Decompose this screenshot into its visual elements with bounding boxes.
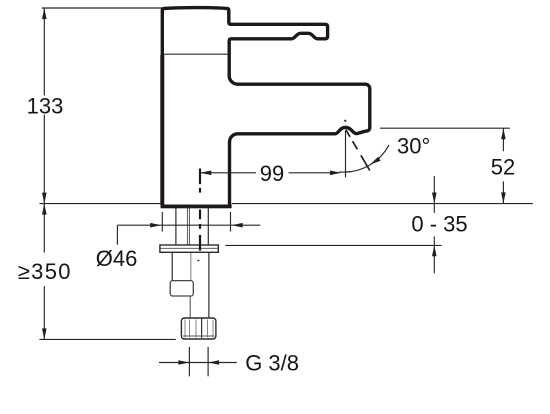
- supply hose 2 right edge: [208, 253, 210, 318]
- svg-text:≥350: ≥350: [18, 259, 72, 284]
- body left edge (heavier stroke): [160, 55, 164, 205]
- outlet centre dot: [344, 120, 346, 122]
- arrowheads: [42, 8, 506, 365]
- dimension line >=350: [43, 204, 45, 253]
- arrow 99 left (left-pointing): [200, 171, 211, 176]
- dimension line 0-35 lower: [433, 236, 435, 273]
- arrow 52 bottom (down): [501, 192, 506, 203]
- hose end line (>=350 bottom reference): [39, 338, 175, 340]
- dia46 leader riser: [116, 225, 118, 245]
- faucet body centreline (dashed): [198, 169, 200, 262]
- svg-text:Ø46: Ø46: [96, 246, 138, 271]
- dimension line 133: [43, 8, 45, 96]
- svg-text:30°: 30°: [397, 133, 430, 158]
- 30 degree dashed spray axis: [346, 130, 370, 171]
- dia46 extension tick right: [230, 212, 232, 232]
- supply hose 1 left edge: [171, 253, 173, 280]
- deck line right segment: [232, 203, 533, 205]
- faucet silhouette (body, handle lever, spout): [162, 8, 369, 207]
- arrow 133 bottom (down): [42, 193, 47, 204]
- dia46 extension tick left: [161, 212, 163, 232]
- threaded shank right edge: [207, 208, 209, 246]
- G3/8 extension line right: [207, 347, 209, 376]
- arrow dia46 right (left-pointing): [232, 223, 243, 228]
- svg-text:133: 133: [27, 93, 64, 118]
- nut knurl lines: [185, 320, 213, 338]
- dimension line 0-35 upper: [433, 176, 435, 213]
- svg-text:99: 99: [260, 161, 284, 186]
- svg-text:52: 52: [491, 155, 515, 180]
- extension line top of faucet: [42, 7, 162, 9]
- arrow G3/8 left (right-pointing): [178, 360, 189, 365]
- dimension line 99: [200, 172, 256, 174]
- spout outlet vertical reference line: [345, 131, 347, 178]
- 30 degree angular arc: [340, 145, 389, 172]
- mounting flange / washer: [160, 245, 218, 252]
- threaded shank left edge: [175, 208, 177, 246]
- svg-text:0 - 35: 0 - 35: [411, 212, 467, 237]
- arrow 0-35 bottom (up to flange line): [432, 245, 437, 256]
- nut inner bottom line: [183, 335, 215, 337]
- dimension texts: [18, 93, 515, 375]
- arrow >=350 bottom (down): [42, 328, 47, 339]
- supply hose 2 left edge: [189, 296, 191, 318]
- body bottom thick base: [161, 204, 232, 208]
- G3/8 extension line left: [188, 347, 190, 376]
- supply hose 1 right edge: [190, 253, 192, 280]
- flange extension line (0-35 bottom reference): [225, 244, 441, 246]
- flange mid line: [161, 247, 218, 249]
- nut hex split line: [201, 319, 203, 339]
- angular arc arrowhead: [370, 157, 381, 165]
- dimension line G3/8: [159, 362, 237, 364]
- handle joint line: [164, 53, 228, 55]
- arrow dia46 left (right-pointing): [150, 223, 161, 228]
- arrow G3/8 right (left-pointing): [208, 360, 219, 365]
- spout outlet extension line (52 top): [380, 127, 510, 129]
- pop-up rod (double line): [186, 208, 188, 246]
- arrow 99 right (right-pointing): [330, 171, 341, 176]
- dimension line 52: [502, 128, 504, 151]
- arrow 52 top (up): [501, 128, 506, 139]
- hose connector block: [170, 281, 193, 296]
- arrow 133 top (up): [42, 8, 47, 19]
- deck line left segment: [40, 203, 161, 205]
- svg-text:G 3/8: G 3/8: [245, 350, 299, 375]
- dia46 dimension line: [117, 224, 260, 226]
- G3/8 knurled nut: [181, 318, 216, 339]
- arrow 0-35 top (down to deck): [432, 193, 437, 204]
- arrow >=350 top (up): [42, 204, 47, 215]
